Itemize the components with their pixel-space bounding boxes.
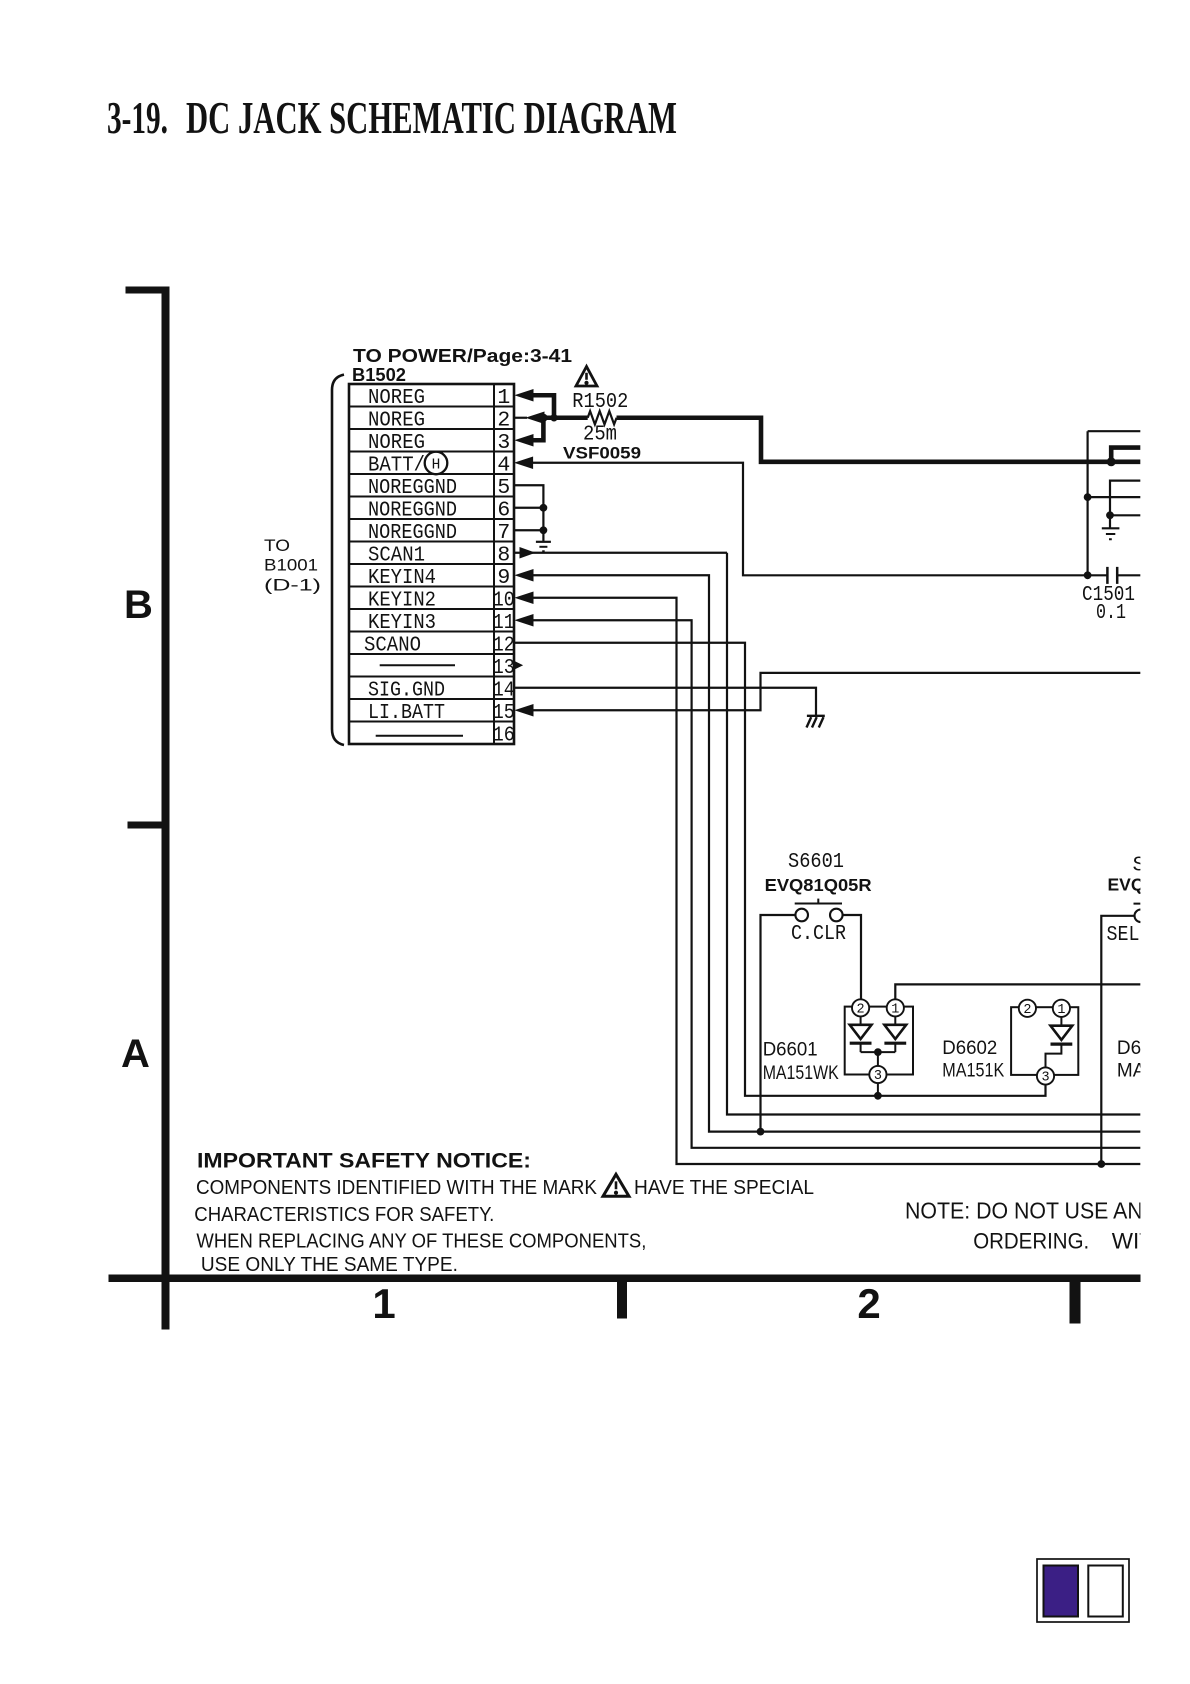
resistor R1502 [588, 411, 617, 424]
svg-text:SIG.GND: SIG.GND [368, 679, 445, 703]
svg-text:CHARACTERISTICS FOR SAFETY.: CHARACTERISTICS FOR SAFETY. [194, 1203, 494, 1226]
svg-text:EVQ81Q05R: EVQ81Q05R [765, 875, 872, 895]
pin 8 wire SCAN1 [514, 552, 727, 554]
svg-text:SEL: SEL [1107, 923, 1140, 947]
diode D6601 [845, 1007, 913, 1075]
svg-text:12: 12 [493, 634, 515, 658]
svg-text:TO: TO [264, 536, 290, 555]
svg-text:COMPONENTS IDENTIFIED WITH THE: COMPONENTS IDENTIFIED WITH THE MARK [196, 1176, 597, 1199]
wire to D6601 pin1 [895, 984, 1140, 999]
pin 4 circled H [425, 452, 448, 475]
svg-text:ORDERING.: ORDERING. [973, 1229, 1089, 1254]
ground (right) [1102, 527, 1120, 529]
svg-text:B: B [124, 583, 153, 627]
svg-text:MA151K: MA151K [942, 1061, 1004, 1082]
pin 6 wire [514, 507, 543, 509]
nav icon outline [1088, 1566, 1123, 1617]
svg-text:A: A [121, 1032, 150, 1076]
svg-text:WHEN REPLACING ANY OF THESE CO: WHEN REPLACING ANY OF THESE COMPONENTS, [196, 1230, 646, 1253]
svg-text:R1502: R1502 [572, 390, 628, 414]
pin 1 wire [516, 390, 533, 401]
svg-text:3: 3 [874, 1069, 882, 1084]
svg-text:3-19.: 3-19. [107, 92, 168, 143]
svg-text:1: 1 [497, 386, 510, 410]
svg-text:BATT/: BATT/ [368, 454, 425, 478]
svg-text:0.1: 0.1 [1096, 601, 1126, 625]
svg-text:2: 2 [1023, 1003, 1031, 1018]
svg-text:3: 3 [497, 431, 510, 455]
svg-text:USE ONLY THE SAME TYPE.: USE ONLY THE SAME TYPE. [201, 1253, 458, 1276]
svg-text:D6602: D6602 [942, 1038, 997, 1059]
svg-text:SCANO: SCANO [364, 634, 421, 658]
svg-text:B1502: B1502 [352, 365, 406, 385]
S6601 left wire [761, 915, 796, 1132]
pin 7 wire [514, 529, 543, 531]
svg-text:DC JACK SCHEMATIC DIAGRAM: DC JACK SCHEMATIC DIAGRAM [186, 92, 677, 143]
svg-text:KEYIN3: KEYIN3 [368, 611, 436, 635]
pin 12 wire SCANO [514, 643, 1046, 1096]
nav icon filled (purple) [1044, 1566, 1079, 1617]
svg-text:D6601: D6601 [763, 1040, 818, 1061]
pin 9 wire KEYIN4 [516, 570, 533, 581]
svg-text:4: 4 [497, 454, 510, 478]
pin 10 wire KEYIN2 [516, 592, 533, 603]
svg-text:H: H [432, 457, 441, 473]
pin 5 wire [514, 485, 543, 530]
safety mark triangle [576, 367, 597, 387]
connector B1502 pin table [349, 384, 514, 744]
svg-text:1: 1 [372, 1280, 395, 1327]
svg-text:C.CLR: C.CLR [791, 922, 846, 946]
svg-text:KEYIN2: KEYIN2 [368, 589, 436, 613]
svg-text:NOREGGND: NOREGGND [368, 521, 457, 545]
svg-text:MA151WK: MA151WK [763, 1063, 839, 1084]
svg-text:TO POWER/Page:3-41: TO POWER/Page:3-41 [353, 346, 572, 366]
svg-text:16: 16 [493, 724, 515, 748]
svg-text:NOREG: NOREG [368, 386, 425, 410]
svg-text:SCAN1: SCAN1 [368, 544, 425, 568]
svg-text:KEYIN4: KEYIN4 [368, 566, 436, 590]
pin 16 no-connect dash [376, 735, 463, 737]
svg-text:6: 6 [497, 499, 510, 523]
svg-text:13: 13 [493, 656, 515, 680]
pin 3 wire [516, 435, 533, 446]
pin 13 no-connect dash [380, 664, 455, 666]
svg-text:14: 14 [493, 679, 515, 703]
svg-text:8: 8 [497, 544, 510, 568]
svg-text:S6601: S6601 [788, 850, 844, 874]
connector bracket [332, 375, 344, 745]
svg-text:1: 1 [1057, 1003, 1065, 1018]
pin 2 wire [514, 417, 527, 419]
svg-text:2: 2 [497, 409, 510, 433]
right partial net stubs [1088, 430, 1141, 432]
svg-text:B1001: B1001 [264, 556, 318, 575]
bottom zone ruler [109, 1275, 1140, 1282]
svg-text:IMPORTANT SAFETY NOTICE:: IMPORTANT SAFETY NOTICE: [197, 1149, 531, 1173]
svg-text:NOREGGND: NOREGGND [368, 476, 457, 500]
pin 13 stub [516, 662, 523, 668]
svg-text:NOREG: NOREG [368, 409, 425, 433]
svg-text:2: 2 [857, 1280, 880, 1327]
svg-text:NOREG: NOREG [368, 431, 425, 455]
svg-text:15: 15 [493, 701, 515, 725]
nav icon frame [1037, 1559, 1129, 1622]
svg-text:9: 9 [497, 566, 510, 590]
NOREG thick wire to right [617, 418, 1141, 462]
capacitor C1501 [1084, 572, 1091, 579]
pin 11 wire KEYIN3 [516, 615, 533, 626]
chassis ground [807, 715, 825, 717]
svg-text:3: 3 [1041, 1071, 1049, 1086]
diode D6602 [1011, 1007, 1078, 1075]
svg-text:11: 11 [493, 611, 515, 635]
svg-text:7: 7 [497, 521, 510, 545]
left margin zone ruler [162, 287, 169, 1329]
svg-text:2: 2 [857, 1003, 865, 1018]
svg-text:5: 5 [497, 476, 510, 500]
svg-text:LI.BATT: LI.BATT [368, 701, 445, 725]
svg-text:NOTE: DO NOT USE ANY: NOTE: DO NOT USE ANY [905, 1198, 1157, 1224]
svg-text:NOREGGND: NOREGGND [368, 499, 457, 523]
svg-text:HAVE THE SPECIAL: HAVE THE SPECIAL [634, 1176, 814, 1199]
svg-text:VSF0059: VSF0059 [563, 444, 641, 463]
pin 4 wire (BATT) [516, 457, 533, 468]
svg-text:(D-1): (D-1) [264, 576, 321, 595]
svg-text:10: 10 [493, 589, 515, 613]
ground (NOREGGND) [542, 530, 544, 542]
S6601 right wire [843, 915, 861, 999]
pin 14 wire SIG.GND [514, 688, 816, 716]
svg-text:1: 1 [891, 1003, 899, 1018]
pin 15 wire LI.BATT [516, 705, 533, 716]
S6602 left wire [1101, 916, 1134, 1164]
